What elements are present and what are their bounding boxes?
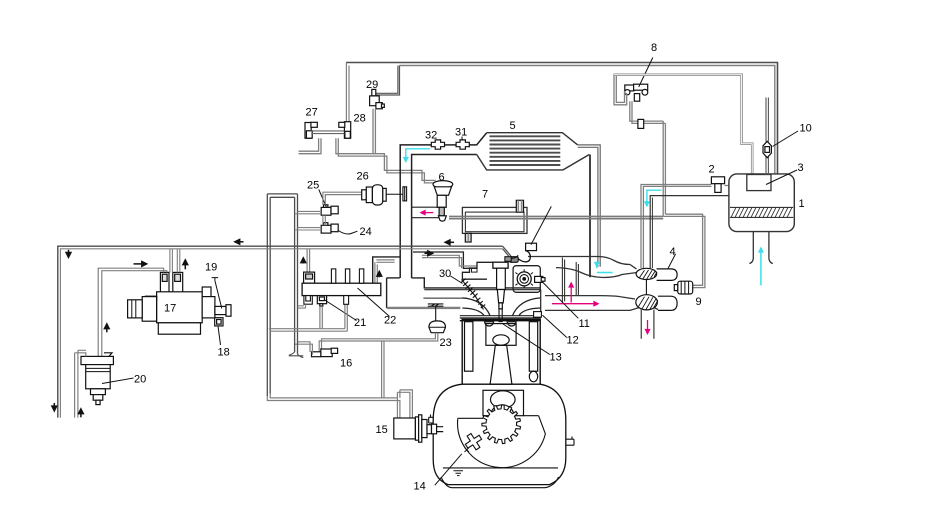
- wire curly from sensor box to injector: [511, 255, 518, 258]
- svg-text:31: 31: [455, 127, 467, 139]
- svg-text:5: 5: [510, 120, 516, 132]
- label 20 leader: [102, 378, 134, 384]
- wire duct from pipe to valve 6 stem: [412, 207, 439, 218]
- svg-text:11: 11: [579, 318, 590, 330]
- valve 27: [305, 122, 317, 138]
- magenta arrow up in exhaust riser: [570, 283, 572, 303]
- wire canister 5 lower exit down to exhaust: [589, 155, 591, 278]
- column (tall air pipe): [267, 194, 297, 396]
- svg-text:27: 27: [306, 107, 318, 119]
- valve 6: [433, 181, 453, 222]
- label 19 tick and leader: [212, 278, 222, 309]
- box 7 bottom stub: [465, 233, 471, 242]
- distributor 17 body: [128, 292, 203, 334]
- wire hose from long hose down to port 2: [177, 249, 180, 273]
- injector nut on rail: [304, 272, 315, 283]
- wire connector on injector: [505, 257, 511, 262]
- wire hose from valve 29 down: [373, 109, 375, 154]
- clamp fitting right of carb: [535, 276, 545, 282]
- wire curly lead to sensor box: [518, 251, 530, 262]
- wire hose from long hose down to port 1: [170, 249, 173, 273]
- engine head gasket band: [460, 318, 541, 321]
- wire hose column to 25: [295, 211, 322, 213]
- crank sweep arc: [458, 416, 546, 468]
- arrow left above long hose: [235, 241, 244, 243]
- engine head top line: [460, 315, 541, 317]
- wire riser from top line to valves 27/28: [346, 63, 349, 123]
- arrow right above distributor: [134, 263, 147, 265]
- cross valve 31: [456, 140, 469, 149]
- wire hose from 28 down then right joining 29 hose then to valve 6: [336, 138, 436, 183]
- oil pickup cross: [462, 430, 485, 453]
- air cleaner 1 body: [729, 174, 794, 232]
- valve 8: [625, 84, 648, 101]
- label 21 leader: [324, 300, 357, 321]
- wire hose from 8 loop along top to air cleaner: [614, 75, 752, 175]
- injector body: [497, 268, 506, 309]
- svg-text:14: 14: [414, 481, 426, 493]
- oil pan inner bottom line: [441, 477, 559, 488]
- wire long horizontal hose far left corner: [58, 246, 503, 417]
- valve 25: [321, 205, 338, 215]
- exhaust down pipe: [641, 309, 654, 339]
- arrow left near carburetor: [445, 241, 454, 243]
- carburetor right body: [513, 266, 540, 293]
- label 14 leader: [435, 454, 462, 485]
- air cleaner snorkel: [749, 232, 772, 264]
- cross valve 32: [431, 140, 444, 149]
- wire hose valve 8 left port loop: [614, 74, 627, 105]
- wire hose column to 24: [295, 228, 322, 230]
- idle solenoid circle: [515, 269, 533, 288]
- svg-text:22: 22: [384, 315, 396, 327]
- wire hose from left stub to column: [298, 304, 306, 308]
- wire between 32 and 31: [445, 144, 457, 146]
- fitting on hose below 8: [638, 119, 644, 128]
- oil level line: [443, 467, 558, 469]
- wire hose lower to canister 5 (pipe right wall): [412, 155, 477, 279]
- box 7 outer: [462, 207, 527, 233]
- canister 5 stripes: [490, 136, 561, 165]
- arrow up left of distributor: [106, 324, 108, 332]
- svg-text:19: 19: [205, 262, 217, 274]
- valve 24: [321, 223, 338, 233]
- wire hose into rail end: [375, 260, 395, 283]
- valve heads: [485, 322, 516, 326]
- cyan arrow at canister line: [597, 262, 613, 273]
- component 9 bellows: [674, 281, 692, 294]
- wire hose from 27 down-left open end: [299, 138, 321, 154]
- wire pump hose jog: [397, 390, 412, 418]
- label 10 leader: [773, 131, 799, 147]
- valve 21: [317, 296, 326, 307]
- fuel rail 22: [302, 283, 381, 295]
- carburetor upper step outline to flange: [413, 252, 477, 268]
- label 8 leader: [639, 58, 653, 88]
- arrow up at intake left: [378, 272, 380, 278]
- crankcase outline: [433, 384, 566, 484]
- wire hose 25 to 24: [323, 215, 325, 225]
- wire hose branch from 23-hose down to pump hose: [382, 341, 384, 398]
- intake runner curves: [462, 298, 540, 316]
- svg-text:1: 1: [799, 198, 805, 210]
- component 18: [215, 318, 223, 326]
- svg-text:6: 6: [439, 172, 445, 184]
- wire top border inner line: [400, 66, 775, 175]
- wire hose inside upper step: [422, 255, 477, 268]
- throttle cross and fuel stem: [428, 304, 444, 321]
- arrow up at rail left: [302, 258, 304, 264]
- label 18 leader: [218, 326, 221, 345]
- magenta arrow at valve 6: [421, 212, 433, 214]
- throttle plate in pipe: [403, 187, 407, 201]
- svg-text:2: 2: [709, 164, 715, 176]
- rail pins: [331, 269, 363, 283]
- label 25 leader: [319, 190, 327, 208]
- svg-text:8: 8: [651, 42, 657, 54]
- magenta arrow right in lower pipe: [552, 303, 598, 305]
- arrow down at far left top: [68, 250, 70, 257]
- arrow right dashed near carburetor: [425, 252, 433, 254]
- exhaust check valve 4 (hatched): [636, 268, 657, 279]
- svg-text:21: 21: [354, 317, 366, 329]
- carburetor intake box left outline: [373, 257, 400, 308]
- wire hose from cross 32 left and down (pipe left wall): [400, 145, 431, 278]
- label 11 leader: [541, 280, 579, 318]
- svg-text:28: 28: [354, 113, 366, 125]
- svg-text:12: 12: [567, 335, 579, 347]
- box 7 top pipe: [516, 200, 523, 212]
- label 22 leader: [358, 288, 390, 317]
- column bottom flare: [289, 352, 304, 358]
- svg-text:7: 7: [482, 189, 488, 201]
- svg-text:10: 10: [800, 123, 812, 135]
- wire pipe with valve 10: [766, 98, 768, 176]
- wire bar between 27 and 28: [311, 131, 344, 134]
- svg-text:17: 17: [164, 303, 176, 315]
- svg-text:13: 13: [550, 352, 562, 364]
- wire black line from air cleaner left down to exhaust: [650, 196, 729, 268]
- timing gear: [482, 405, 521, 444]
- sensor box leader line: [531, 206, 551, 244]
- wire hose through box 7 to right junction: [449, 216, 663, 218]
- label 4 leader: [668, 254, 676, 269]
- wire hose column to pump 15: [267, 390, 412, 418]
- exhaust upper pipe: [528, 257, 637, 278]
- wire hose 25 up and right to 26: [323, 192, 363, 205]
- wire canister 5 upper exit down to exhaust: [578, 145, 601, 267]
- valve 29: [370, 89, 385, 108]
- svg-text:26: 26: [357, 171, 369, 183]
- svg-text:20: 20: [134, 374, 146, 386]
- arrow up right of distributor hoses: [184, 260, 186, 269]
- oil pump 15 body: [394, 415, 443, 442]
- wire hose from 23 left to valve 16: [319, 333, 438, 352]
- injector tip: [499, 309, 502, 322]
- wire long hose right slant to connector: [503, 246, 511, 256]
- svg-text:30: 30: [439, 268, 451, 280]
- rail left stub: [304, 296, 312, 305]
- svg-text:9: 9: [696, 296, 702, 308]
- fuel filter 23: [429, 321, 446, 333]
- wire hose from 21 and rail stub down-left to column: [269, 304, 348, 331]
- wire hose from port 1 left and down to canister 20: [98, 268, 167, 356]
- svg-text:16: 16: [340, 358, 352, 370]
- cyan arrow into pipe: [406, 149, 430, 162]
- big end housing box: [483, 390, 524, 415]
- connecting rod: [490, 345, 512, 384]
- sensor box: [526, 243, 537, 250]
- crank journal circle: [490, 405, 514, 429]
- wire riser from top line down to valve 29: [375, 66, 400, 96]
- wire hose from fitting 2 left and down to exhaust: [641, 185, 729, 269]
- injector flange: [493, 262, 508, 268]
- label 3 leader: [766, 170, 797, 185]
- label 13 leader: [503, 324, 550, 355]
- wire hose from valve 8 down to fitting and right: [630, 101, 666, 123]
- exhaust risers from head: [562, 258, 578, 304]
- piston: [486, 324, 516, 346]
- wire vertical link between check valves: [645, 280, 647, 295]
- svg-text:15: 15: [376, 424, 388, 436]
- svg-text:24: 24: [360, 226, 372, 238]
- fitting 2: [711, 177, 724, 193]
- spring linkage 30: [461, 279, 485, 310]
- wire hose down to injector nut: [307, 249, 310, 272]
- label 30 leader: [451, 276, 463, 284]
- exhaust lower end bulb: [658, 296, 677, 310]
- rod end ellipse: [491, 391, 516, 408]
- wire head right side vertical: [540, 290, 542, 316]
- canister 5 outline: [477, 133, 590, 170]
- arrow down at bottom far left: [53, 403, 55, 411]
- cylinder wall strips: [465, 322, 538, 382]
- label 24 leader curve: [338, 231, 357, 235]
- cyan arrow down toward EGR: [647, 190, 662, 206]
- svg-text:23: 23: [440, 337, 452, 349]
- air cleaner filter hatch band: [730, 207, 793, 217]
- carburetor intake box right outline and ledge: [412, 278, 541, 298]
- wire hose from 16 left elbow up to column: [295, 342, 313, 355]
- svg-text:32: 32: [425, 130, 437, 142]
- canister 20: [81, 353, 113, 405]
- exhaust lower check valve (hatched): [636, 295, 658, 310]
- wire top border outer line: [346, 63, 778, 175]
- box 7 inner: [465, 212, 524, 232]
- crankcase left stub: [429, 415, 434, 424]
- exhaust lower pipe: [545, 296, 658, 311]
- oil level marks: [454, 471, 464, 476]
- carburetor float bowl left steps: [462, 262, 493, 279]
- exhaust upper end bulb: [657, 269, 678, 281]
- valve 10: [763, 141, 771, 157]
- distributor cap ports: [160, 272, 182, 295]
- wire 31 to canister 5: [469, 133, 486, 145]
- magenta arrow down in exhaust pipe: [647, 320, 649, 334]
- rail middle stub: [344, 296, 349, 305]
- distributor right attachments: [202, 287, 231, 318]
- svg-text:18: 18: [218, 347, 230, 359]
- wire hose right side down to component 9: [663, 121, 705, 288]
- box 3 inside air cleaner: [747, 175, 771, 191]
- label 12 leader: [543, 315, 567, 337]
- valve 16: [312, 348, 338, 356]
- head side fitting 12 target: [534, 312, 542, 318]
- svg-text:29: 29: [366, 79, 378, 91]
- arrow up at bottom left pair: [80, 409, 82, 417]
- wire rod 26 to throttle plate: [386, 193, 403, 195]
- svg-text:4: 4: [670, 246, 676, 258]
- svg-text:25: 25: [307, 180, 319, 192]
- cylinder block: [462, 319, 540, 384]
- wire hose left pair to canister 20: [75, 350, 86, 417]
- cyan arrow up into snorkel: [760, 248, 762, 285]
- carburetor intake box bottom: [387, 307, 461, 309]
- valve 28: [339, 122, 351, 139]
- crankcase right stub: [566, 437, 574, 446]
- component 26 barrel: [362, 185, 386, 205]
- svg-text:3: 3: [798, 162, 804, 174]
- connector on wire: [509, 257, 518, 263]
- label 31 tick: [461, 137, 463, 141]
